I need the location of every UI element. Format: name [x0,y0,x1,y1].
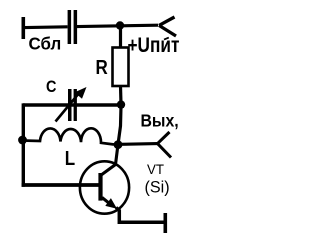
svg-text:L: L [65,147,75,170]
svg-text:VT: VT [147,162,165,177]
svg-text:C: C [46,78,56,96]
svg-text:R: R [96,55,109,78]
svg-text:Вых,: Вых, [141,111,179,131]
svg-text:+Uпит: +Uпит [128,35,180,58]
svg-text:(Si): (Si) [145,177,170,196]
svg-text:Сбл: Сбл [29,33,62,54]
